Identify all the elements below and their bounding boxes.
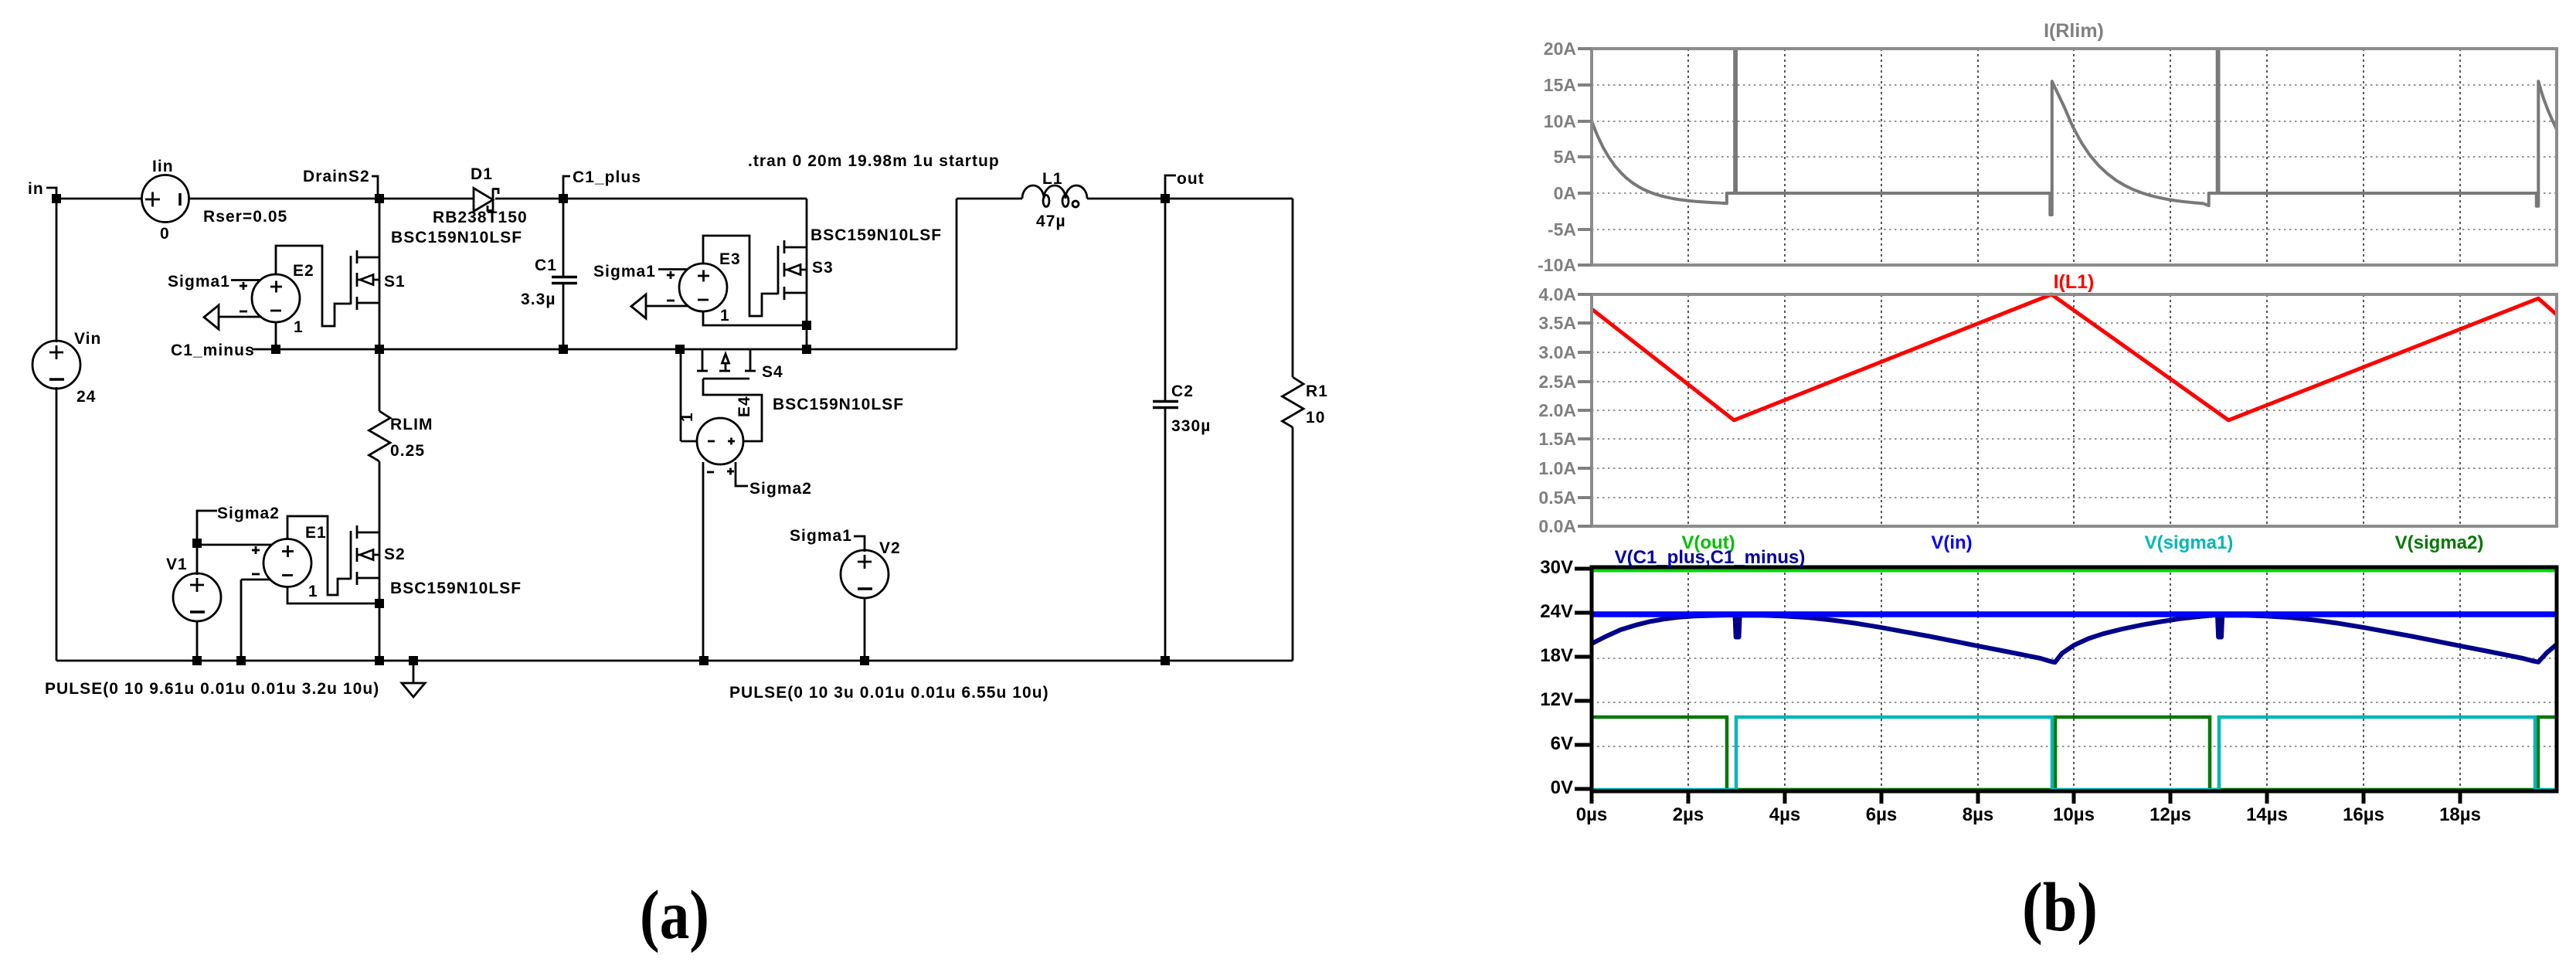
svg-text:0µs: 0µs [1576, 804, 1608, 825]
svg-text:20A: 20A [1544, 39, 1576, 59]
svg-text:0A: 0A [1554, 183, 1576, 203]
svg-text:Sigma1: Sigma1 [790, 527, 852, 545]
svg-text:C1: C1 [535, 257, 557, 274]
svg-text:2.5A: 2.5A [1538, 372, 1576, 392]
svg-text:Sigma2: Sigma2 [217, 505, 280, 522]
svg-text:(b): (b) [2022, 869, 2098, 946]
svg-text:16µs: 16µs [2343, 804, 2384, 825]
svg-text:1: 1 [308, 583, 318, 600]
svg-text:S4: S4 [762, 363, 783, 381]
svg-text:1: 1 [720, 307, 730, 325]
svg-text:5A: 5A [1554, 147, 1576, 167]
svg-text:0V: 0V [1551, 777, 1573, 798]
svg-text:Sigma2: Sigma2 [749, 480, 812, 498]
svg-text:3.3µ: 3.3µ [521, 291, 556, 308]
svg-text:E2: E2 [293, 262, 314, 280]
svg-text:3.0A: 3.0A [1538, 342, 1576, 362]
svg-text:10µs: 10µs [2053, 804, 2095, 825]
svg-text:C2: C2 [1171, 382, 1194, 400]
svg-text:(a): (a) [640, 877, 709, 954]
svg-text:1: 1 [294, 318, 304, 336]
svg-text:0.0A: 0.0A [1538, 516, 1576, 536]
svg-text:12V: 12V [1540, 689, 1573, 710]
svg-text:14µs: 14µs [2246, 804, 2288, 825]
svg-text:18µs: 18µs [2439, 804, 2481, 825]
svg-text:Rser=0.05: Rser=0.05 [203, 208, 287, 226]
svg-text:S1: S1 [384, 273, 406, 291]
svg-text:DrainS2: DrainS2 [303, 168, 370, 185]
svg-text:-10A: -10A [1538, 255, 1576, 275]
svg-text:in: in [28, 180, 44, 198]
svg-text:0.25: 0.25 [390, 442, 425, 460]
svg-text:V(C1_plus,C1_minus): V(C1_plus,C1_minus) [1615, 547, 1806, 568]
svg-text:2µs: 2µs [1673, 804, 1704, 825]
svg-text:RB238T150: RB238T150 [433, 209, 528, 226]
svg-text:1.0A: 1.0A [1538, 458, 1576, 478]
svg-text:S3: S3 [812, 259, 834, 277]
svg-text:8µs: 8µs [1963, 804, 1994, 825]
svg-text:6µs: 6µs [1866, 804, 1898, 825]
svg-text:1.5A: 1.5A [1538, 429, 1576, 449]
svg-text:E3: E3 [719, 250, 741, 268]
svg-text:PULSE(0 10 9.61u 0.01u 0.01u 3: PULSE(0 10 9.61u 0.01u 0.01u 3.2u 10u) [45, 680, 379, 698]
svg-text:1: 1 [678, 412, 696, 422]
svg-text:V(sigma2): V(sigma2) [2395, 532, 2484, 553]
svg-text:10: 10 [1306, 409, 1325, 427]
svg-text:BSC159N10LSF: BSC159N10LSF [773, 396, 904, 413]
svg-text:18V: 18V [1540, 645, 1573, 666]
svg-text:Sigma1: Sigma1 [168, 273, 230, 291]
svg-text:4µs: 4µs [1769, 804, 1801, 825]
svg-text:V(sigma1): V(sigma1) [2145, 532, 2234, 553]
svg-text:10A: 10A [1544, 111, 1576, 131]
svg-text:out: out [1177, 170, 1205, 188]
svg-text:30V: 30V [1540, 557, 1573, 578]
svg-text:3.5A: 3.5A [1538, 313, 1576, 333]
svg-text:-5A: -5A [1548, 219, 1576, 240]
svg-text:BSC159N10LSF: BSC159N10LSF [390, 580, 522, 597]
svg-text:15A: 15A [1544, 75, 1576, 95]
svg-text:D1: D1 [471, 165, 493, 183]
svg-text:V1: V1 [166, 556, 188, 573]
svg-text:RLIM: RLIM [390, 416, 433, 433]
svg-text:24: 24 [76, 388, 96, 406]
svg-text:47µ: 47µ [1036, 212, 1066, 230]
svg-text:V(in): V(in) [1931, 532, 1972, 553]
svg-text:E1: E1 [305, 524, 327, 542]
svg-text:.tran 0 20m 19.98m 1u startup: .tran 0 20m 19.98m 1u startup [748, 152, 1000, 170]
svg-text:4.0A: 4.0A [1538, 284, 1576, 304]
svg-text:E4: E4 [736, 396, 753, 417]
svg-text:C1_plus: C1_plus [573, 168, 641, 186]
svg-text:0: 0 [160, 225, 170, 243]
svg-text:0.5A: 0.5A [1538, 488, 1576, 508]
svg-text:Sigma1: Sigma1 [593, 263, 656, 280]
svg-text:I(L1): I(L1) [2054, 271, 2095, 293]
svg-text:12µs: 12µs [2149, 804, 2191, 825]
svg-text:I(Rlim): I(Rlim) [2044, 20, 2104, 42]
svg-text:PULSE(0 10 3u 0.01u 0.01u 6.55: PULSE(0 10 3u 0.01u 0.01u 6.55u 10u) [729, 684, 1049, 702]
svg-text:V2: V2 [879, 539, 901, 557]
svg-text:R1: R1 [1306, 382, 1328, 400]
svg-text:C1_minus: C1_minus [171, 342, 255, 359]
svg-text:2.0A: 2.0A [1538, 400, 1576, 420]
svg-text:330µ: 330µ [1171, 417, 1211, 435]
svg-text:L1: L1 [1042, 170, 1063, 188]
svg-text:BSC159N10LSF: BSC159N10LSF [811, 226, 942, 244]
svg-text:6V: 6V [1551, 733, 1573, 754]
svg-text:BSC159N10LSF: BSC159N10LSF [391, 229, 522, 246]
svg-text:Iin: Iin [152, 158, 174, 175]
svg-text:Vin: Vin [74, 330, 101, 348]
svg-text:S2: S2 [384, 546, 406, 563]
svg-text:24V: 24V [1540, 601, 1573, 622]
